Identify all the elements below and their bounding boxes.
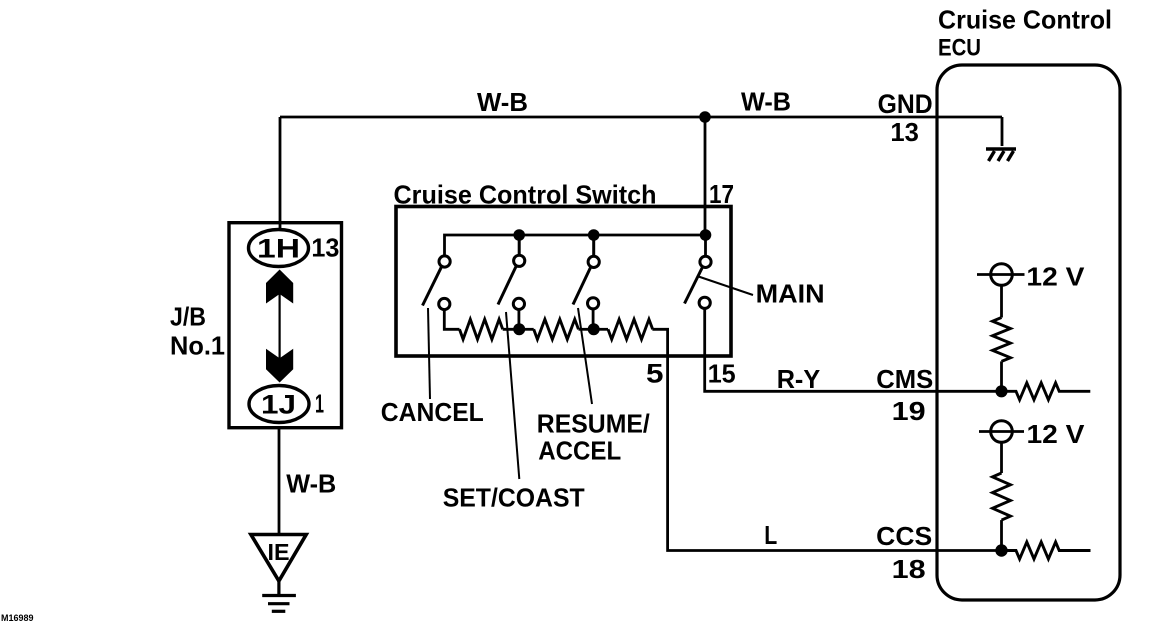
wire R6 to CCS node (1000, 520, 1003, 550)
svg-text:13: 13 (890, 117, 919, 147)
switch SET/COAST: blade (498, 267, 516, 305)
svg-text:No.1: No.1 (170, 331, 225, 361)
junction dot bus/MAIN (pin 17) (700, 229, 712, 241)
svg-text:1H: 1H (257, 234, 300, 264)
svg-text:GND: GND (878, 89, 933, 119)
arrow up (J/B internal) (266, 270, 293, 304)
switch MAIN: lower terminal (699, 297, 710, 308)
resistor R5 (horizontal, CMS) with tail (1002, 383, 1091, 400)
switch MAIN: top terminal (700, 256, 711, 267)
junction dot bus/RESUME (588, 229, 600, 241)
svg-text:R-Y: R-Y (777, 364, 821, 394)
wire 12V to R4 (1000, 286, 1003, 318)
svg-text:13: 13 (311, 233, 339, 263)
wire junction to R3 (594, 328, 608, 331)
svg-text:CCS: CCS (876, 521, 932, 551)
svg-text:MAIN: MAIN (756, 279, 825, 309)
wire SET lower terminal to junction (518, 310, 521, 325)
junction dot chain/RESUME (588, 323, 600, 335)
ground connector IE triangle (251, 535, 306, 582)
switch SET/COAST: top terminal (514, 255, 525, 266)
wire R1 to junction (503, 328, 520, 331)
callout line CANCEL (428, 308, 430, 399)
connector 1J oval (249, 386, 309, 423)
wire R4 to CMS node (1000, 361, 1003, 391)
wire internal bus (445, 235, 706, 256)
svg-text:19: 19 (892, 396, 926, 426)
junction block J/B No.1 box (229, 223, 342, 428)
resistor R6 (vertical, CCS) (993, 473, 1011, 520)
svg-text:IE: IE (268, 539, 290, 565)
junction dot node (top, above pin 17) (699, 111, 711, 123)
junction dot CCS node 18 (995, 544, 1007, 556)
switch SET/COAST: lower terminal (513, 298, 524, 309)
wire junction to R2 (519, 328, 534, 331)
wire W-B 1J to IE ground (278, 428, 281, 535)
callout line RESUME/ACCEL (578, 308, 592, 404)
svg-text:5: 5 (646, 359, 664, 389)
svg-text:L: L (764, 520, 777, 550)
wire RESUME lower terminal to junction (592, 309, 595, 324)
wire 12V to R6 (1000, 443, 1003, 474)
svg-text:J/B: J/B (170, 302, 206, 332)
resistor R2 (SET-RESUME) (534, 319, 579, 339)
svg-text:ECU: ECU (938, 35, 981, 62)
connector 1H oval (249, 230, 309, 267)
wire R2 to junction RESUME (579, 328, 594, 331)
svg-text:1: 1 (315, 389, 324, 419)
svg-text:15: 15 (708, 359, 736, 389)
wire left drop to J/B 1H (279, 117, 282, 232)
resistor R1 (CANCEL-SET) (460, 319, 503, 339)
svg-text:M16989: M16989 (1, 613, 34, 623)
junction dot CMS node 19 (995, 385, 1007, 397)
wire pin 5: chain to L wire (652, 329, 1001, 550)
wire CANCEL lower terminal to resistor chain (444, 310, 459, 330)
switch RESUME/ACCEL: stub from bus (592, 235, 595, 256)
switch SET/COAST: stub from bus (518, 235, 521, 255)
arrow down (J/B internal) (266, 349, 293, 383)
wire GND stub inside ECU (1001, 117, 1004, 146)
svg-text:CMS: CMS (876, 364, 933, 394)
battery symbol 12V (CCS branch) (991, 421, 1013, 443)
wire pin 15: MAIN lower terminal to R-Y wire (705, 308, 1002, 391)
callout line MAIN (697, 276, 753, 295)
svg-text:17: 17 (709, 179, 734, 209)
Cruise Control ECU box (937, 65, 1120, 600)
svg-text:12 V: 12 V (1027, 419, 1086, 449)
battery symbol 12V (CMS branch) (991, 264, 1013, 286)
svg-text:ACCEL: ACCEL (538, 436, 621, 466)
svg-text:SET/COAST: SET/COAST (443, 483, 585, 513)
ground symbol (ECU GND) (986, 149, 1016, 161)
junction dot bus/SET (513, 229, 525, 241)
ground symbol below IE (262, 579, 296, 611)
resistor R7 (horizontal, CCS) with tail (1002, 542, 1091, 559)
svg-text:Cruise Control: Cruise Control (938, 5, 1112, 35)
svg-text:CANCEL: CANCEL (381, 397, 484, 427)
switch RESUME/ACCEL: top terminal (588, 256, 599, 267)
switch MAIN: blade (685, 268, 703, 304)
resistor R4 (vertical, CMS) (993, 318, 1011, 362)
switch CANCEL: top terminal (439, 256, 450, 267)
svg-text:W-B: W-B (286, 469, 336, 499)
svg-text:W-B: W-B (477, 87, 528, 117)
Cruise Control Switch box (396, 207, 731, 357)
wire junction down to switch bus (pin 17) (704, 117, 707, 235)
svg-text:RESUME/: RESUME/ (537, 409, 650, 439)
svg-text:18: 18 (892, 554, 926, 584)
resistor R3 (RESUME-pin5) (608, 319, 653, 339)
switch RESUME/ACCEL: lower terminal (588, 298, 599, 309)
svg-text:1J: 1J (261, 390, 296, 420)
switch MAIN: stub from bus (704, 235, 707, 256)
svg-text:W-B: W-B (741, 87, 791, 117)
switch RESUME/ACCEL: blade (573, 268, 591, 305)
junction dot chain/SET (513, 323, 525, 335)
wire between arrows (279, 290, 281, 362)
callout line SET/COAST (506, 312, 519, 479)
svg-text:12 V: 12 V (1026, 262, 1085, 292)
switch CANCEL: lower terminal (439, 298, 450, 309)
wire W-B top bus (280, 116, 1002, 119)
switch CANCEL: blade (423, 267, 442, 306)
